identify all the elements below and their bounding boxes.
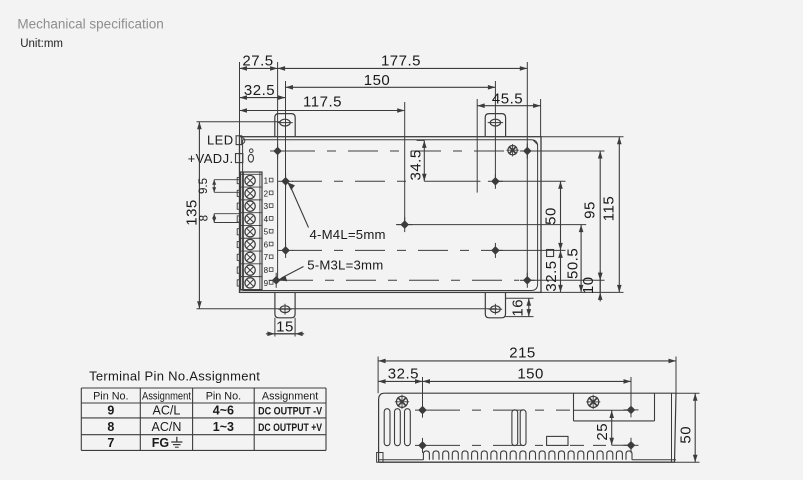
svg-text:Pin No.: Pin No. [206,390,241,402]
svg-text:Terminal Pin No.Assignment: Terminal Pin No.Assignment [89,368,260,383]
svg-text:115: 115 [600,196,617,221]
svg-text:5: 5 [264,228,269,237]
svg-text:27.5: 27.5 [242,53,273,70]
svg-text:8: 8 [198,215,210,221]
svg-text:16: 16 [510,299,527,317]
svg-text:1: 1 [264,177,269,186]
svg-text:150: 150 [364,72,391,89]
svg-text:Assignment: Assignment [142,390,191,402]
svg-text:5-M3L=3mm: 5-M3L=3mm [307,257,383,272]
svg-text:4~6: 4~6 [213,404,234,418]
svg-text:215: 215 [509,344,536,361]
svg-text:150: 150 [517,366,544,383]
svg-text:DC OUTPUT +V: DC OUTPUT +V [258,422,323,434]
svg-text:8: 8 [264,266,269,275]
svg-text:32.5: 32.5 [244,82,275,99]
svg-text:177.5: 177.5 [381,53,421,70]
svg-text:32.5: 32.5 [388,366,419,383]
svg-text:95: 95 [581,201,598,219]
svg-text:Mechanical specification: Mechanical specification [17,17,163,32]
svg-text:50: 50 [542,207,559,225]
svg-text:Assignment: Assignment [262,390,318,402]
svg-text:6: 6 [264,240,269,249]
svg-text:3: 3 [264,202,269,211]
svg-text:+VADJ.: +VADJ. [188,151,234,166]
svg-text:9: 9 [264,279,269,288]
svg-text:7: 7 [107,436,114,450]
svg-text:9.5: 9.5 [198,178,210,194]
svg-text:LED: LED [207,133,234,148]
svg-text:4-M4L=5mm: 4-M4L=5mm [310,227,386,242]
svg-text:Pin No.: Pin No. [93,390,128,402]
svg-text:4: 4 [264,215,269,224]
svg-text:FG: FG [152,436,169,450]
svg-text:9: 9 [107,404,114,418]
svg-text:1~3: 1~3 [213,420,234,434]
svg-text:117.5: 117.5 [303,94,342,111]
svg-text:45.5: 45.5 [492,90,523,107]
svg-text:50: 50 [677,426,694,444]
svg-text:AC/N: AC/N [152,420,182,434]
svg-text:34.5: 34.5 [407,149,424,180]
svg-text:2: 2 [264,189,269,198]
svg-text:32.5: 32.5 [543,260,560,291]
svg-text:7: 7 [264,253,269,262]
svg-text:Unit:mm: Unit:mm [20,38,63,50]
svg-text:50.5: 50.5 [565,248,582,279]
svg-text:8: 8 [107,420,114,434]
svg-text:10: 10 [580,276,597,294]
svg-text:25: 25 [594,423,611,441]
svg-text:DC OUTPUT -V: DC OUTPUT -V [258,406,323,418]
svg-text:AC/L: AC/L [153,404,181,418]
svg-text:15: 15 [276,318,294,335]
